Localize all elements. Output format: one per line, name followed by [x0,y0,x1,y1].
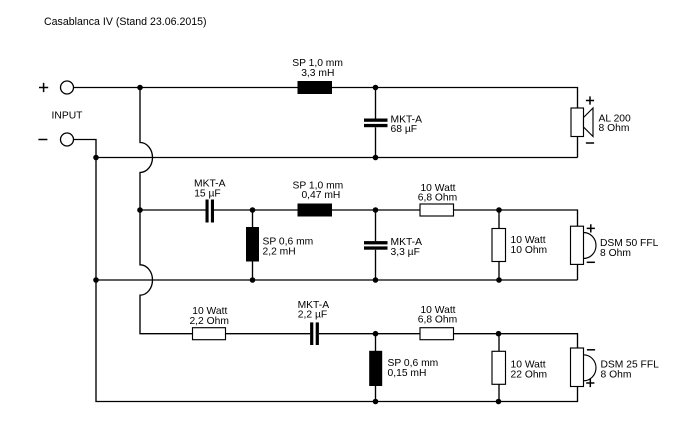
junction node bottom rail / resistor 22 Ohm [496,399,502,405]
resistor 6,8 Ohm (series, bottom section) [420,328,454,340]
junction node top rail / cap 68uF [373,85,379,91]
svg-text:6,8 Ohm: 6,8 Ohm [418,193,458,204]
svg-text:0,15 mH: 0,15 mH [388,368,427,379]
junction node top rail / x140 [137,85,143,91]
svg-text:68 µF: 68 µF [391,124,418,135]
svg-text:8 Ohm: 8 Ohm [599,123,630,134]
speaker DSM 50 FFL dome [584,233,597,259]
junction node mid rail / inductor 2,2mH [250,207,256,213]
capacitor 68 uF plates [364,119,388,122]
svg-text:2,2 mH: 2,2 mH [263,246,296,257]
capacitor 2,2 uF plates (series) [310,322,313,345]
svg-text:2,2 µF: 2,2 µF [298,310,327,321]
inductor 2,2 mH (shunt, mid section) [246,227,259,262]
polarity mark DSM50 + [587,224,595,232]
junction node mid rail / cap 3,3uF [373,207,379,213]
terminal input + circle [61,81,74,94]
svg-text:10 Ohm: 10 Ohm [511,245,548,256]
wire third rail y334 to DSM25 top [319,334,578,348]
svg-text:3,3 mH: 3,3 mH [301,68,334,79]
svg-text:15 µF: 15 µF [194,188,221,199]
polarity mark input + [39,83,48,92]
resistor 6,8 Ohm (series, mid section) [420,204,454,216]
polarity mark DSM50 - [587,261,595,263]
svg-text:INPUT: INPUT [52,111,84,122]
speaker DSM 50 FFL body [571,226,584,264]
svg-text:22 Ohm: 22 Ohm [511,370,548,381]
speaker DSM 25 FFL dome [584,355,597,381]
wire shunt branch capacitor 68uF [375,88,377,158]
wire top rail from input+ to AL200 top [74,88,578,158]
resistor 2,2 Ohm (series, bottom section) [193,328,226,340]
wire return rail y157 [96,157,578,159]
polarity mark DSM25 + [586,379,594,387]
svg-text:6,8 Ohm: 6,8 Ohm [418,314,458,325]
junction node mid rail / resistor 10 Ohm [496,207,502,213]
capacitor 3,3 uF plates [364,241,388,244]
junction node third rail / inductor 0,15mH [373,331,379,337]
junction node lower-mid rail / inductor 2,2mH [250,277,256,283]
inductor 0,47 mH (series, mid section) [298,204,333,217]
capacitor 15 uF plates (series) [206,200,209,223]
inductor 0,15 mH (shunt, bottom section) [369,351,382,386]
junction node third rail / resistor 22 Ohm [496,331,502,337]
speaker AL 200 body [571,108,584,137]
svg-text:8 Ohm: 8 Ohm [601,370,632,381]
wire shunt branch resistor 10 Ohm [498,210,500,280]
polarity mark input - [38,139,47,141]
resistor 10 Ohm (shunt, mid section) [492,229,506,262]
polarity mark DSM25 - [587,349,595,351]
wire lower-mid return rail y280 [96,279,578,281]
speaker DSM 25 FFL body [571,348,584,387]
speaker AL 200 cone [584,108,594,137]
svg-text:2,2 Ohm: 2,2 Ohm [189,316,229,327]
junction node lower-mid rail / resistor 10 Ohm [496,277,502,283]
resistor 22 Ohm (shunt, bottom section) [492,351,506,384]
wire shunt branch inductor 0,15mH [375,334,377,402]
svg-text:8 Ohm: 8 Ohm [600,248,631,259]
wire shunt branch resistor 22 Ohm [498,334,500,402]
junction node mid rail / x140 [137,207,143,213]
svg-text:3,3 µF: 3,3 µF [391,247,420,258]
junction node lower-mid rail / x96 [93,277,99,283]
junction node bottom rail / inductor 0,15mH [373,399,379,405]
junction node return rail / x96 [93,155,99,161]
polarity mark AL200 - [586,142,594,144]
svg-text:0,47 mH: 0,47 mH [301,190,340,201]
junction node lower-mid rail / cap 3,3uF [373,277,379,283]
terminal input - circle [61,133,74,146]
wire shunt branch capacitor 3,3uF [375,210,377,280]
wire shunt branch inductor 2,2mH [252,210,254,280]
svg-text:Casablanca IV (Stand 23.06.201: Casablanca IV (Stand 23.06.2015) [44,16,207,28]
inductor 3,3 mH (series, top section) [298,81,333,94]
junction node return rail / cap 68uF [373,155,379,161]
wire input- down left side and bottom rail to DSM25 bottom [74,140,578,402]
wire vertical x140 with two hop-overs to third rail [140,88,310,334]
wire mid rail y210 to DSM50 top [140,210,578,280]
polarity mark AL200 + [586,96,594,104]
